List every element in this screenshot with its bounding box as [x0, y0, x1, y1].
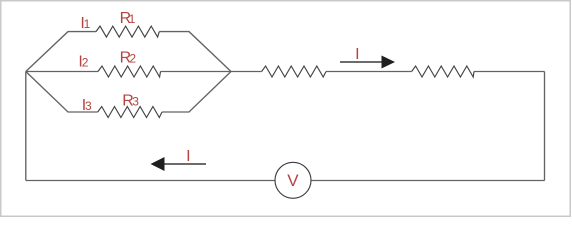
wire: R1 to node B: [159, 32, 231, 72]
svg-text:R1: R1: [120, 10, 136, 27]
wire: node A to R2: [26, 71, 98, 73]
resistor (series, right): [412, 66, 474, 77]
wire: second resistor to top-right corner: [474, 71, 545, 73]
resistor (series, left): [262, 66, 326, 77]
resistor R2: [98, 66, 161, 77]
svg-text:I: I: [355, 46, 359, 63]
wire: R2 to node B: [161, 71, 232, 73]
wire: right vertical: [544, 72, 546, 181]
wire: voltmeter to bottom left: [26, 180, 275, 182]
wire: left vertical: [25, 72, 27, 181]
svg-text:I2: I2: [78, 53, 88, 70]
current arrow I (bottom, pointing left): [151, 157, 207, 171]
resistor R3: [98, 107, 162, 118]
svg-text:R2: R2: [120, 49, 137, 66]
voltmeter V: [275, 162, 311, 198]
current arrow I (top, pointing right): [340, 56, 395, 69]
wire: R3 to node B: [162, 72, 231, 113]
resistor R1: [96, 26, 159, 37]
svg-text:V: V: [287, 171, 299, 190]
wire: node B to first series resistor: [231, 71, 262, 73]
wire: node A to top branch diagonal: [26, 32, 96, 72]
svg-text:I: I: [186, 148, 190, 165]
svg-text:I1: I1: [80, 15, 90, 32]
svg-text:R3: R3: [122, 93, 139, 110]
svg-text:I3: I3: [82, 97, 92, 114]
wire: between series resistors: [326, 71, 412, 73]
wire: bottom right to voltmeter: [311, 180, 545, 182]
wire: node A to bottom branch diagonal: [26, 72, 98, 113]
